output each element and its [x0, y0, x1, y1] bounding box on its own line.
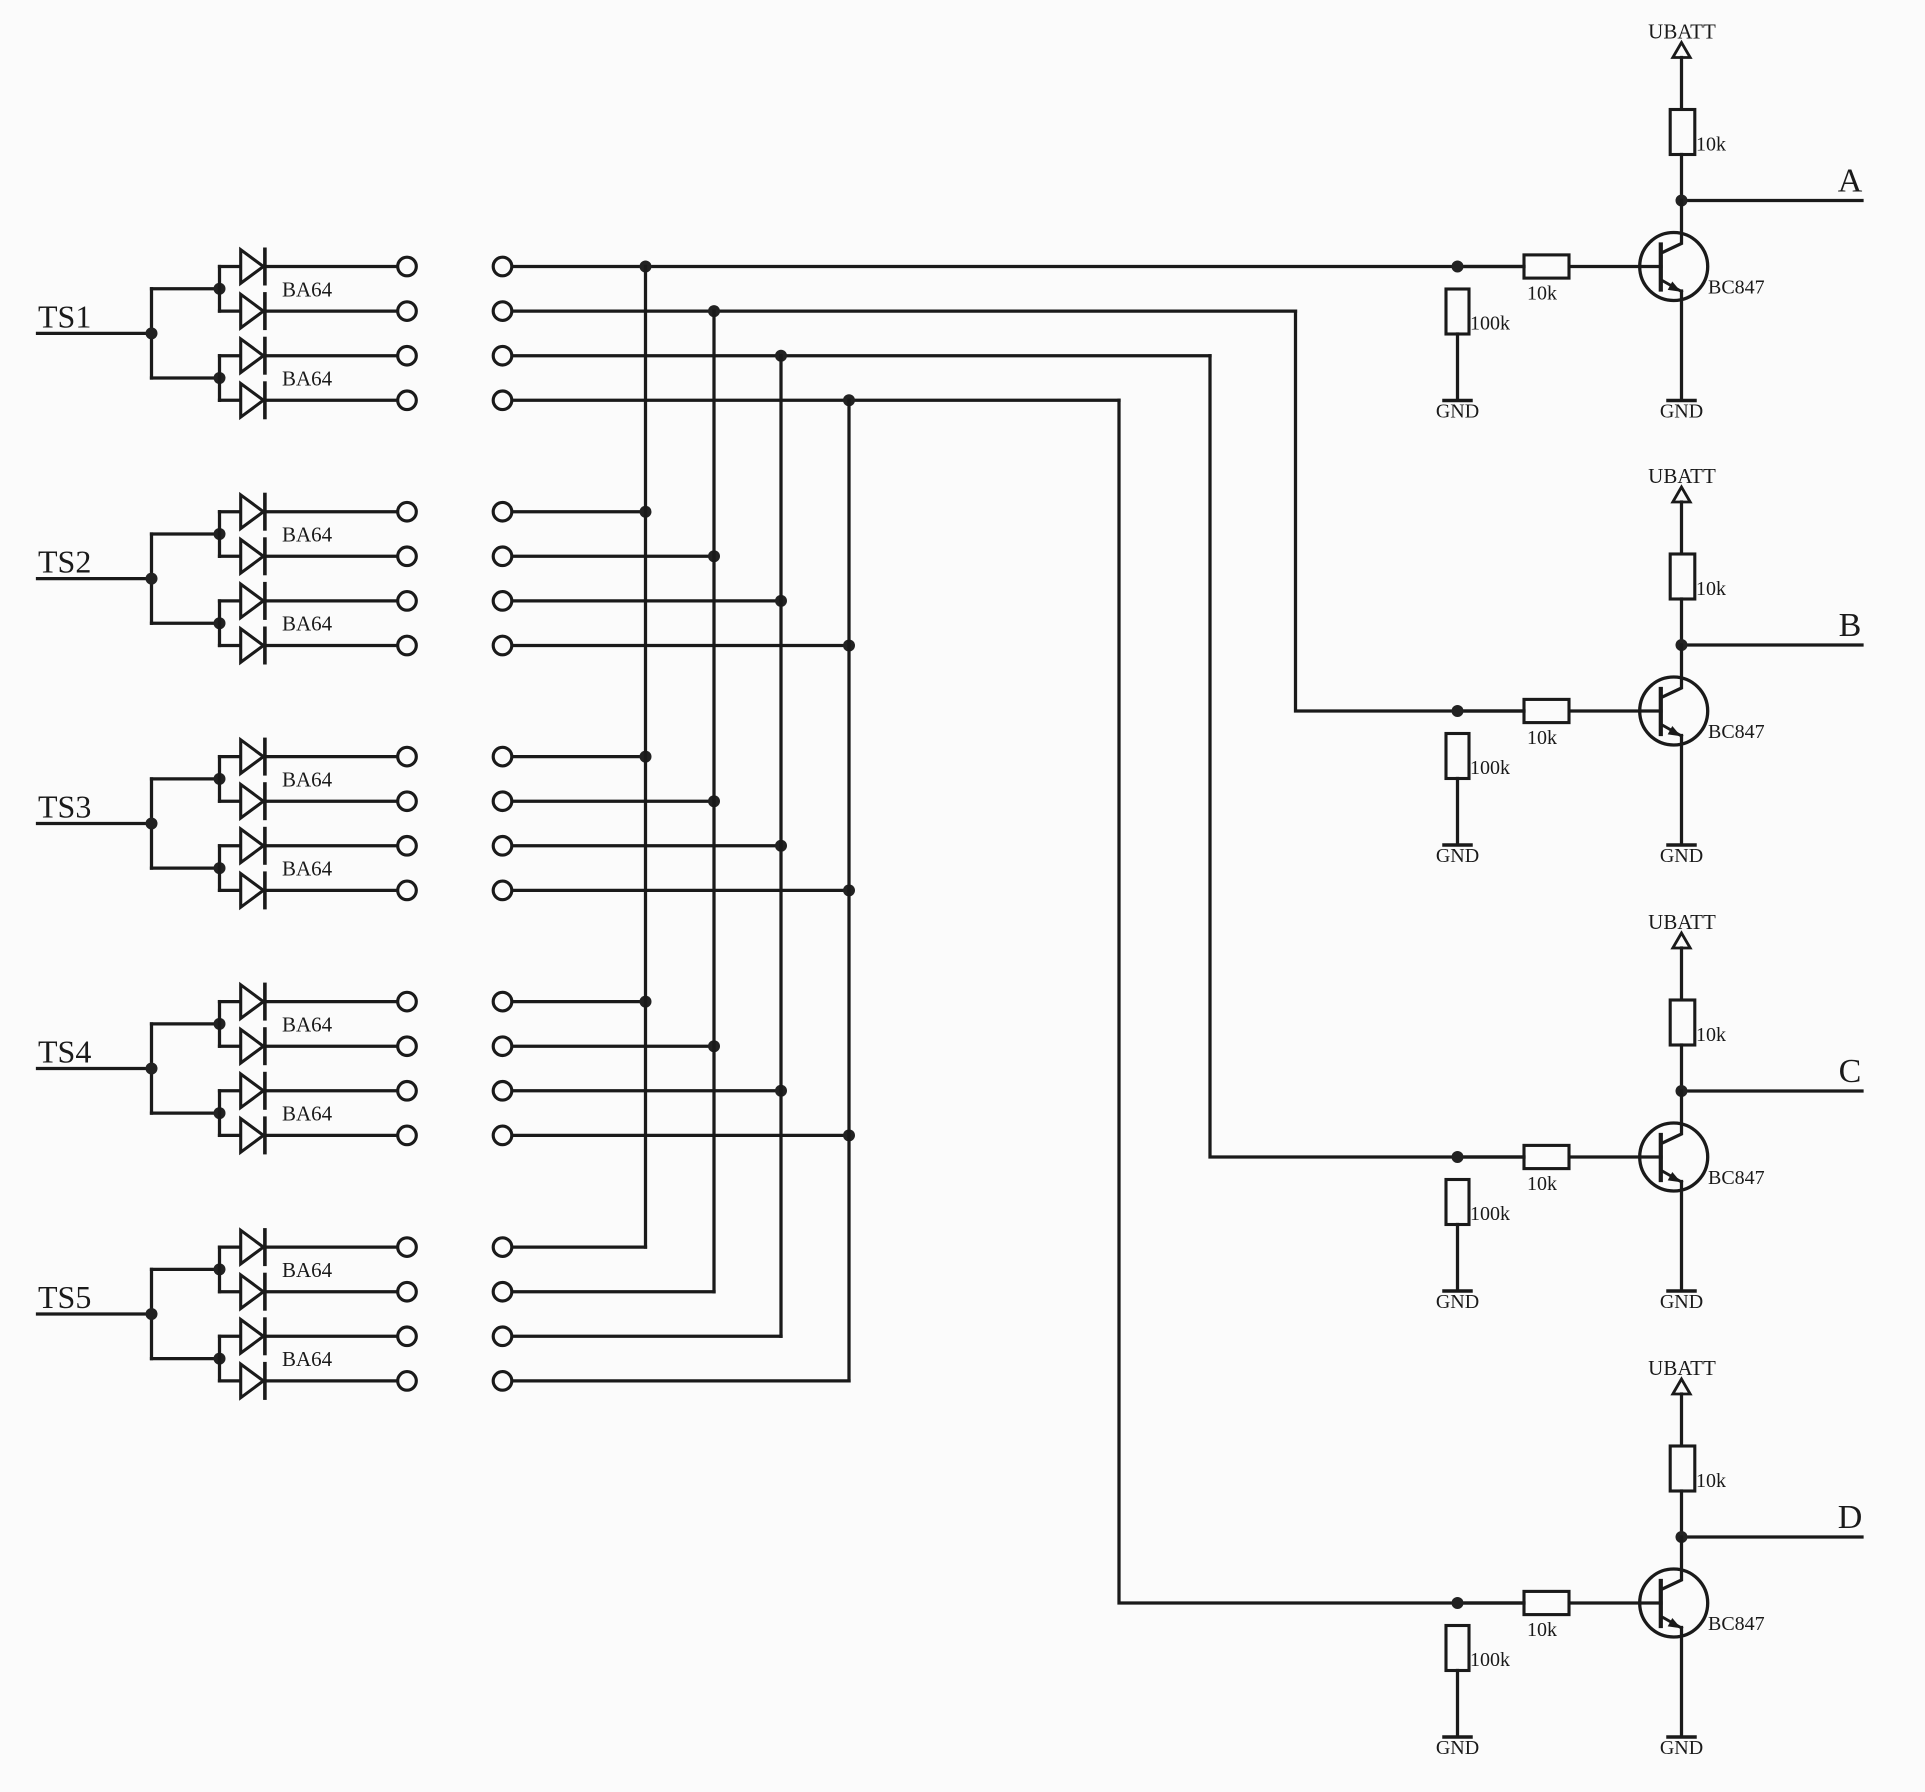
pad TS3 row3 outer	[493, 837, 512, 856]
junction TS4 lower pair	[214, 1107, 226, 1119]
junction TS1	[146, 327, 158, 339]
diode BA64 TS4 row1	[220, 984, 397, 1018]
svg-text:10k: 10k	[1696, 134, 1726, 156]
wire row2 link to transistor B base	[1296, 311, 1525, 711]
pad TS2 row2 inner	[398, 547, 417, 566]
svg-text:UBATT: UBATT	[1648, 20, 1716, 44]
emitter arrow (C)	[1668, 1172, 1681, 1182]
junction pulldown node (A)	[1452, 261, 1464, 273]
transistor Q (D) base bar	[1659, 1581, 1663, 1626]
svg-text:10k: 10k	[1696, 578, 1726, 600]
wire 100k to ground (B)	[1456, 779, 1459, 845]
svg-text:100k: 100k	[1470, 1203, 1510, 1225]
junction TS3	[146, 818, 158, 830]
svg-text:TS4: TS4	[38, 1034, 91, 1070]
junction TS1 row2 on bus 2	[708, 305, 720, 317]
svg-text:TS1: TS1	[38, 298, 91, 334]
junction TS4 row2 on bus 2	[708, 1040, 720, 1052]
svg-text:UBATT: UBATT	[1648, 1356, 1716, 1380]
wire emitter lead (C)	[1661, 1171, 1681, 1183]
wire TS4 upper pair anode bus	[218, 1002, 221, 1047]
svg-text:C: C	[1839, 1053, 1862, 1090]
svg-text:100k: 100k	[1470, 1649, 1510, 1671]
pad TS3 row4 inner	[398, 881, 417, 900]
resistor 100k pulldown (C)	[1446, 1180, 1469, 1225]
wire TS2 row4	[513, 644, 849, 647]
junction TS2	[146, 573, 158, 585]
junction pulldown node (D)	[1452, 1597, 1464, 1609]
wire resistor to node B	[1680, 599, 1683, 645]
svg-text:10k: 10k	[1527, 727, 1557, 749]
pad TS4 row3 inner	[398, 1082, 417, 1101]
wire pulldown node to base resistor (B)	[1458, 709, 1525, 712]
transistor Q (C) BC847 body	[1640, 1123, 1708, 1191]
wire resistor to node D	[1680, 1491, 1683, 1537]
svg-text:10k: 10k	[1527, 283, 1557, 305]
pad TS2 row4 inner	[398, 636, 417, 655]
wire TS4 lower branch	[152, 1111, 220, 1114]
power UBATT arrow (C circuit)	[1673, 933, 1690, 948]
junction TS1 row3 on bus 3	[775, 350, 787, 362]
transistor Q (A) BC847 body	[1640, 233, 1708, 301]
svg-text:GND: GND	[1660, 1291, 1703, 1313]
wire emitter lead (A)	[1661, 280, 1681, 292]
svg-text:100k: 100k	[1470, 757, 1510, 779]
junction collector node B	[1676, 639, 1688, 651]
diode BA64 TS2 row3	[220, 584, 397, 618]
pad TS5 row3 inner	[398, 1327, 417, 1346]
wire TS3 lower pair anode bus	[218, 846, 221, 891]
wire collector lead (A)	[1661, 201, 1681, 254]
ground symbol emitter (C)	[1668, 1289, 1695, 1293]
resistor 100k pulldown (D)	[1446, 1626, 1469, 1671]
svg-text:TS5: TS5	[38, 1279, 91, 1315]
svg-text:10k: 10k	[1696, 1470, 1726, 1492]
wire 100k to ground (C)	[1456, 1225, 1459, 1291]
pad TS1 row3 outer	[493, 346, 512, 365]
wire TS5 row2	[513, 1290, 714, 1293]
wire TS1 upper branch	[152, 287, 220, 290]
bus column 2 (row2 net)	[712, 311, 715, 1292]
wire TS4 upper branch	[152, 1022, 220, 1025]
wire emitter to ground (C)	[1680, 1182, 1683, 1291]
svg-text:TS3: TS3	[38, 789, 91, 825]
wire collector lead (C)	[1661, 1091, 1681, 1144]
transistor Q (B) BC847 body	[1640, 677, 1708, 745]
junction TS3 row3 on bus 3	[775, 840, 787, 852]
junction TS2 row4 on bus 4	[843, 640, 855, 652]
junction TS3 row1 on bus 1	[640, 751, 652, 763]
svg-text:BA64: BA64	[282, 367, 333, 391]
svg-text:BA64: BA64	[282, 767, 333, 791]
pad TS2 row1 outer	[493, 502, 512, 521]
pad TS5 row4 outer	[493, 1372, 512, 1391]
wire emitter to ground (B)	[1680, 736, 1683, 845]
wire row4 link to transistor D base	[1119, 400, 1524, 1603]
svg-text:GND: GND	[1436, 1291, 1479, 1313]
wire base lead (B)	[1569, 709, 1661, 712]
diode BA64 TS4 row2	[220, 1029, 397, 1063]
junction TS5 lower pair	[214, 1353, 226, 1365]
wire TS3 lower branch	[152, 866, 220, 869]
wire TS4 feed	[38, 1067, 152, 1070]
wire TS3 vertical	[150, 779, 153, 868]
pad TS1 row4 outer	[493, 391, 512, 410]
emitter arrow (B)	[1668, 726, 1681, 736]
diode BA64 TS5 row2	[220, 1275, 397, 1309]
junction TS1 row1 on bus 1	[640, 261, 652, 273]
pad TS4 row4 inner	[398, 1126, 417, 1145]
resistor 10k base (A)	[1524, 255, 1569, 278]
junction TS3 lower pair	[214, 862, 226, 874]
svg-text:BA64: BA64	[282, 857, 333, 881]
wire resistor to node A	[1680, 155, 1683, 201]
svg-text:BA64: BA64	[282, 1102, 333, 1126]
wire TS2 lower pair anode bus	[218, 601, 221, 646]
pad TS4 row1 outer	[493, 992, 512, 1011]
wire emitter lead (D)	[1661, 1617, 1681, 1629]
wire TS4 lower pair anode bus	[218, 1091, 221, 1136]
wire UBATT to collector resistor (D)	[1680, 1394, 1683, 1446]
pad TS5 row1 outer	[493, 1238, 512, 1257]
pad TS5 row2 outer	[493, 1282, 512, 1301]
wire TS4 row2	[513, 1045, 714, 1048]
wire output C	[1682, 1089, 1863, 1092]
wire TS1 upper pair anode bus	[218, 267, 221, 312]
svg-text:A: A	[1838, 163, 1863, 200]
pad TS3 row2 inner	[398, 792, 417, 811]
wire TS3 row2	[513, 800, 714, 803]
svg-text:TS2: TS2	[38, 544, 91, 580]
ground symbol pulldown (B)	[1444, 843, 1471, 847]
pad TS1 row3 inner	[398, 346, 417, 365]
ground symbol emitter (A)	[1668, 399, 1695, 403]
resistor 100k pulldown (B)	[1446, 734, 1469, 779]
wire TS5 upper pair anode bus	[218, 1247, 221, 1292]
resistor 10k base (B)	[1524, 699, 1569, 722]
pad TS1 row1 inner	[398, 257, 417, 276]
diode BA64 TS5 row3	[220, 1319, 397, 1353]
junction TS1 upper pair	[214, 283, 226, 295]
svg-text:UBATT: UBATT	[1648, 910, 1716, 934]
junction TS4 row1 on bus 1	[640, 996, 652, 1008]
junction pulldown node (B)	[1452, 705, 1464, 717]
pad TS5 row1 inner	[398, 1238, 417, 1257]
junction pulldown node (C)	[1452, 1151, 1464, 1163]
wire TS2 row3	[513, 599, 781, 602]
resistor 10k base (C)	[1524, 1145, 1569, 1168]
wire collector lead (B)	[1661, 645, 1681, 698]
svg-text:BC847: BC847	[1708, 721, 1765, 743]
pad TS5 row3 outer	[493, 1327, 512, 1346]
diode BA64 TS3 row3	[220, 829, 397, 863]
svg-text:100k: 100k	[1470, 313, 1510, 335]
wire TS1 row2	[513, 309, 1295, 312]
junction TS4 upper pair	[214, 1018, 226, 1030]
junction TS4	[146, 1063, 158, 1075]
svg-text:10k: 10k	[1696, 1024, 1726, 1046]
svg-text:GND: GND	[1660, 1737, 1703, 1759]
pad TS4 row2 inner	[398, 1037, 417, 1056]
junction TS2 row1 on bus 1	[640, 506, 652, 518]
junction TS2 lower pair	[214, 617, 226, 629]
wire pulldown node to base resistor (C)	[1458, 1155, 1525, 1158]
pad TS3 row2 outer	[493, 792, 512, 811]
wire TS2 lower branch	[152, 622, 220, 625]
ground symbol emitter (B)	[1668, 843, 1695, 847]
junction collector node A	[1676, 195, 1688, 207]
svg-text:10k: 10k	[1527, 1619, 1557, 1641]
junction TS2 row2 on bus 2	[708, 550, 720, 562]
wire TS1 row1	[513, 265, 1524, 268]
resistor 100k pulldown (A)	[1446, 289, 1469, 334]
wire TS3 row1	[513, 755, 645, 758]
wire TS2 row2	[513, 555, 714, 558]
wire TS4 row3	[513, 1089, 781, 1092]
pad TS3 row4 outer	[493, 881, 512, 900]
wire TS5 lower branch	[152, 1357, 220, 1360]
bus column 4 (row4 net)	[847, 400, 850, 1381]
power UBATT arrow (B circuit)	[1673, 487, 1690, 502]
bus column 3 (row3 net)	[779, 356, 782, 1337]
diode BA64 TS2 row1	[220, 495, 397, 529]
junction TS3 row4 on bus 4	[843, 884, 855, 896]
wire output A	[1682, 199, 1863, 202]
wire TS1 row3	[513, 354, 1210, 357]
junction TS2 row3 on bus 3	[775, 595, 787, 607]
pad TS2 row1 inner	[398, 502, 417, 521]
resistor 10k collector (B)	[1670, 554, 1695, 599]
svg-text:BC847: BC847	[1708, 1613, 1765, 1635]
junction TS1 row4 on bus 4	[843, 394, 855, 406]
svg-text:BA64: BA64	[282, 277, 333, 301]
power UBATT arrow (D circuit)	[1673, 1379, 1690, 1394]
wire output D	[1682, 1535, 1863, 1538]
wire TS2 row1	[513, 510, 645, 513]
wire TS3 upper branch	[152, 777, 220, 780]
svg-text:BC847: BC847	[1708, 277, 1765, 299]
wire base lead (C)	[1569, 1155, 1661, 1158]
diode BA64 TS1 row1	[220, 249, 397, 283]
junction TS5	[146, 1308, 158, 1320]
wire TS3 upper pair anode bus	[218, 757, 221, 802]
wire TS5 upper branch	[152, 1268, 220, 1271]
svg-text:D: D	[1838, 1499, 1863, 1536]
ground symbol pulldown (A)	[1444, 399, 1471, 403]
svg-text:GND: GND	[1660, 401, 1703, 423]
emitter arrow (A)	[1668, 282, 1681, 292]
junction TS1 lower pair	[214, 372, 226, 384]
junction collector node C	[1676, 1085, 1688, 1097]
wire emitter to ground (A)	[1680, 291, 1683, 400]
transistor Q (C) base bar	[1659, 1135, 1663, 1180]
svg-text:GND: GND	[1436, 401, 1479, 423]
svg-text:BA64: BA64	[282, 1347, 333, 1371]
svg-text:GND: GND	[1436, 845, 1479, 867]
svg-text:BA64: BA64	[282, 1012, 333, 1036]
wire TS5 row3	[513, 1335, 781, 1338]
wire TS4 row1	[513, 1000, 645, 1003]
wire output B	[1682, 643, 1863, 646]
wire pulldown node to base resistor (D)	[1458, 1601, 1525, 1604]
wire emitter to ground (D)	[1680, 1628, 1683, 1737]
svg-text:10k: 10k	[1527, 1173, 1557, 1195]
svg-text:B: B	[1839, 607, 1862, 644]
transistor Q (B) base bar	[1659, 689, 1663, 734]
pad TS2 row3 inner	[398, 592, 417, 611]
wire TS1 row4	[513, 399, 1119, 402]
ground symbol emitter (D)	[1668, 1735, 1695, 1739]
pad TS1 row2 outer	[493, 302, 512, 321]
wire 100k to ground (D)	[1456, 1671, 1459, 1737]
wire TS3 row4	[513, 889, 849, 892]
transistor Q (D) BC847 body	[1640, 1569, 1708, 1637]
pad TS4 row3 outer	[493, 1082, 512, 1101]
diode BA64 TS3 row1	[220, 739, 397, 773]
pad TS5 row2 inner	[398, 1282, 417, 1301]
svg-text:BC847: BC847	[1708, 1167, 1765, 1189]
wire TS1 feed	[38, 332, 152, 335]
wire UBATT to collector resistor (A)	[1680, 58, 1683, 110]
wire TS5 feed	[38, 1312, 152, 1315]
resistor 10k collector (A)	[1670, 110, 1695, 155]
wire UBATT to collector resistor (B)	[1680, 502, 1683, 554]
ground symbol pulldown (C)	[1444, 1289, 1471, 1293]
pad TS3 row1 inner	[398, 747, 417, 766]
power UBATT arrow (A circuit)	[1673, 43, 1690, 58]
wire UBATT to collector resistor (C)	[1680, 948, 1683, 1000]
wire TS5 vertical	[150, 1269, 153, 1358]
wire TS2 feed	[38, 577, 152, 580]
junction TS3 upper pair	[214, 773, 226, 785]
wire TS3 row3	[513, 844, 781, 847]
diode BA64 TS3 row2	[220, 784, 397, 818]
diode BA64 TS4 row3	[220, 1074, 397, 1108]
wire base lead (A)	[1569, 265, 1661, 268]
wire pulldown node to base resistor (A)	[1458, 265, 1525, 268]
bus column 1 (row1 net)	[644, 267, 647, 1248]
diode BA64 TS5 row1	[220, 1230, 397, 1264]
junction TS4 row4 on bus 4	[843, 1129, 855, 1141]
wire TS4 vertical	[150, 1024, 153, 1113]
pad TS2 row4 outer	[493, 636, 512, 655]
junction TS5 upper pair	[214, 1263, 226, 1275]
wire TS2 upper branch	[152, 532, 220, 535]
wire TS2 upper pair anode bus	[218, 512, 221, 557]
wire base lead (D)	[1569, 1601, 1661, 1604]
svg-text:BA64: BA64	[282, 1258, 333, 1282]
diode BA64 TS1 row3	[220, 339, 397, 373]
svg-text:BA64: BA64	[282, 612, 333, 636]
diode BA64 TS3 row4	[220, 873, 397, 907]
wire resistor to node C	[1680, 1045, 1683, 1091]
wire TS5 row1	[513, 1245, 645, 1248]
wire TS2 vertical	[150, 534, 153, 623]
pad TS1 row1 outer	[493, 257, 512, 276]
svg-text:UBATT: UBATT	[1648, 464, 1716, 488]
wire row3 link to transistor C base	[1210, 356, 1524, 1157]
diode BA64 TS5 row4	[220, 1364, 397, 1398]
diode BA64 TS1 row2	[220, 294, 397, 328]
pad TS5 row4 inner	[398, 1372, 417, 1391]
svg-text:GND: GND	[1660, 845, 1703, 867]
pad TS3 row3 inner	[398, 837, 417, 856]
transistor Q (A) base bar	[1659, 245, 1663, 290]
junction TS2 upper pair	[214, 528, 226, 540]
ground symbol pulldown (D)	[1444, 1735, 1471, 1739]
wire TS3 feed	[38, 822, 152, 825]
wire 100k to ground (A)	[1456, 334, 1459, 400]
svg-text:GND: GND	[1436, 1737, 1479, 1759]
diode BA64 TS2 row2	[220, 539, 397, 573]
diode BA64 TS1 row4	[220, 383, 397, 417]
wire emitter lead (B)	[1661, 725, 1681, 737]
wire TS5 row4	[513, 1379, 849, 1382]
junction TS3 row2 on bus 2	[708, 795, 720, 807]
pad TS1 row2 inner	[398, 302, 417, 321]
resistor 10k collector (D)	[1670, 1446, 1695, 1491]
wire collector lead (D)	[1661, 1537, 1681, 1590]
diode BA64 TS2 row4	[220, 628, 397, 662]
wire TS5 lower pair anode bus	[218, 1336, 221, 1381]
junction TS4 row3 on bus 3	[775, 1085, 787, 1097]
pad TS3 row1 outer	[493, 747, 512, 766]
pad TS4 row2 outer	[493, 1037, 512, 1056]
pad TS2 row3 outer	[493, 592, 512, 611]
wire TS4 row4	[513, 1134, 849, 1137]
pad TS1 row4 inner	[398, 391, 417, 410]
pad TS4 row4 outer	[493, 1126, 512, 1145]
diode BA64 TS4 row4	[220, 1118, 397, 1152]
wire TS1 lower pair anode bus	[218, 356, 221, 401]
pad TS2 row2 outer	[493, 547, 512, 566]
svg-text:BA64: BA64	[282, 523, 333, 547]
resistor 10k collector (C)	[1670, 1000, 1695, 1045]
wire TS1 lower branch	[152, 376, 220, 379]
junction collector node D	[1676, 1531, 1688, 1543]
wire TS1 vertical	[150, 289, 153, 378]
resistor 10k base (D)	[1524, 1591, 1569, 1614]
pad TS4 row1 inner	[398, 992, 417, 1011]
emitter arrow (D)	[1668, 1618, 1681, 1628]
